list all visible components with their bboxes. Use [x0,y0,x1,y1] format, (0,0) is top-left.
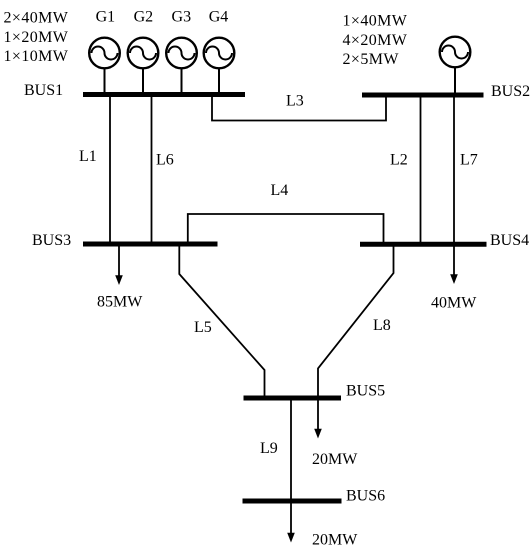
svg-text:BUS1: BUS1 [24,82,63,99]
svg-text:L2: L2 [390,152,408,169]
bus BUS4 [360,242,487,247]
svg-text:BUS3: BUS3 [32,232,71,249]
svg-text:L1: L1 [79,148,97,165]
svg-text:L3: L3 [286,93,304,110]
generator G3 [166,38,197,93]
svg-text:L4: L4 [271,182,289,199]
svg-text:L7: L7 [460,152,478,169]
load arrow 20MW at BUS5 [314,400,322,439]
svg-text:40MW: 40MW [431,295,477,312]
svg-text:G1: G1 [96,9,116,26]
svg-text:G2: G2 [134,9,154,26]
svg-text:BUS4: BUS4 [490,232,529,249]
svg-text:L9: L9 [260,440,278,457]
svg-text:BUS2: BUS2 [491,83,530,100]
svg-text:L6: L6 [156,152,174,169]
svg-text:85MW: 85MW [97,294,143,311]
svg-text:1×10MW: 1×10MW [4,48,69,65]
bus BUS1 [83,92,245,97]
svg-text:20MW: 20MW [312,532,358,549]
wire L9 [290,400,292,499]
generator G5 [440,37,471,93]
svg-text:L5: L5 [194,319,212,336]
wire L6 [151,97,153,242]
bus BUS5 [244,396,342,401]
svg-text:1×40MW: 1×40MW [343,13,408,30]
wire L5 [179,246,264,396]
load arrow 20MW at BUS6 [287,500,295,543]
svg-text:4×20MW: 4×20MW [343,32,408,49]
svg-text:BUS5: BUS5 [346,383,385,400]
svg-text:20MW: 20MW [312,451,358,468]
bus BUS3 [83,242,218,247]
wire L4 [188,214,384,243]
load arrow 85MW [115,246,123,285]
wire L3 [212,96,386,121]
wire L2 [420,97,422,242]
svg-text:G4: G4 [209,9,229,26]
svg-text:BUS6: BUS6 [346,488,385,505]
generator G2 [128,38,159,93]
wire L8 [318,246,394,396]
load arrow 40MW [450,246,458,284]
wire L7 [453,97,455,242]
bus BUS6 [243,499,342,504]
svg-text:1×20MW: 1×20MW [4,29,69,46]
bus BUS2 [362,93,484,98]
wire L1 [109,97,111,242]
svg-text:2×5MW: 2×5MW [343,51,400,68]
generator G1 [89,38,120,93]
svg-text:2×40MW: 2×40MW [4,10,69,27]
svg-text:G3: G3 [172,9,192,26]
generator G4 [204,38,235,93]
svg-text:L8: L8 [373,317,391,334]
